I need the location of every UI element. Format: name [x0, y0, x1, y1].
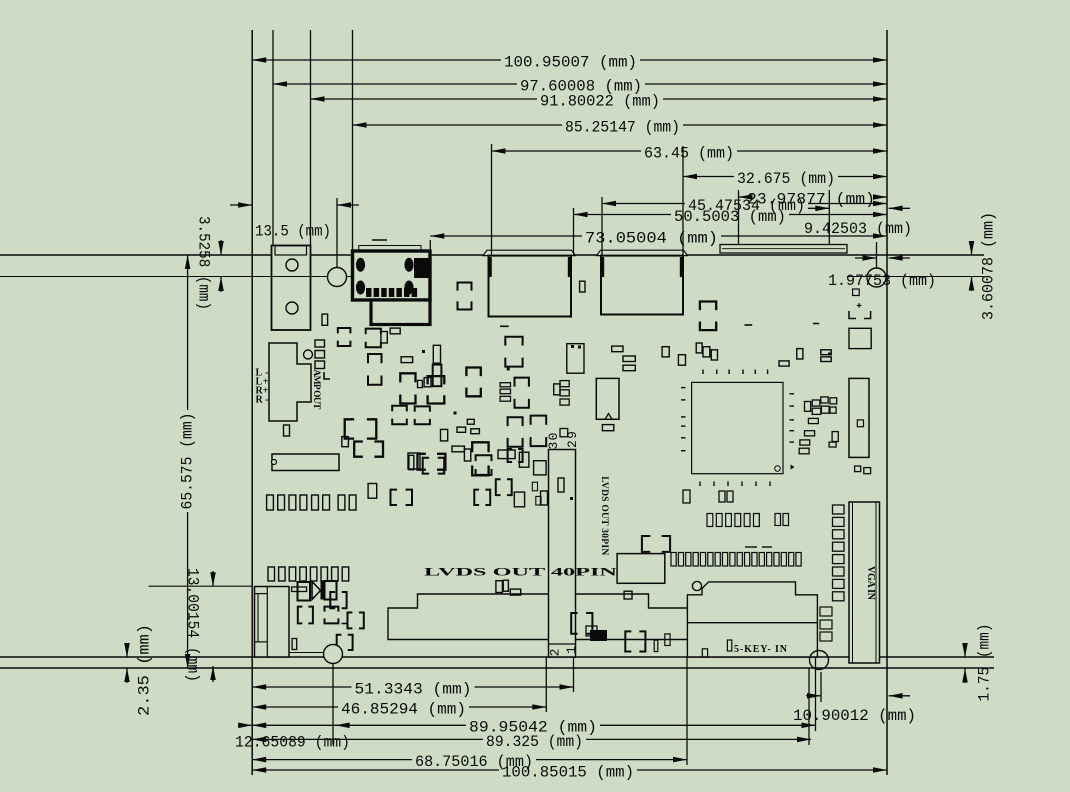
- svg-text:50.5003 (mm): 50.5003 (mm): [674, 208, 786, 226]
- svg-text:1.75 (mm): 1.75 (mm): [975, 624, 993, 702]
- svg-text:63.45 (mm): 63.45 (mm): [644, 144, 734, 162]
- svg-text:100.95007 (mm): 100.95007 (mm): [504, 53, 637, 71]
- svg-text:2: 2: [547, 649, 562, 657]
- svg-text:91.80022 (mm): 91.80022 (mm): [540, 92, 660, 110]
- svg-text:51.3343 (mm): 51.3343 (mm): [355, 680, 472, 698]
- svg-text:1.97753 (mm): 1.97753 (mm): [828, 272, 936, 290]
- svg-text:73.05004 (mm): 73.05004 (mm): [585, 229, 718, 247]
- svg-text:46.85294 (mm): 46.85294 (mm): [341, 700, 466, 718]
- svg-text:12.65089 (mm): 12.65089 (mm): [235, 733, 350, 751]
- svg-text:3.5258 (mm): 3.5258 (mm): [195, 216, 213, 310]
- svg-text:30: 30: [546, 433, 561, 450]
- svg-text:89.325 (mm): 89.325 (mm): [486, 733, 583, 751]
- svg-text:2.35 (mm): 2.35 (mm): [135, 624, 153, 716]
- svg-text:R-: R-: [256, 394, 269, 405]
- svg-text:65.575 (mm): 65.575 (mm): [178, 413, 196, 510]
- svg-text:9.42503 (mm): 9.42503 (mm): [804, 220, 912, 238]
- svg-text:13.00154 (mm): 13.00154 (mm): [184, 568, 202, 682]
- svg-text:13.5 (mm): 13.5 (mm): [255, 222, 331, 240]
- svg-text:LVDS OUT 40PIN: LVDS OUT 40PIN: [424, 565, 618, 579]
- svg-text:32.675 (mm): 32.675 (mm): [737, 170, 835, 188]
- svg-text:5-KEY- IN: 5-KEY- IN: [734, 644, 788, 655]
- svg-text:100.85015 (mm): 100.85015 (mm): [502, 763, 634, 781]
- svg-text:3.60078 (mm): 3.60078 (mm): [979, 212, 997, 320]
- svg-text:LVDS OUT 30PIN: LVDS OUT 30PIN: [599, 476, 609, 555]
- svg-text:AMP OUT: AMP OUT: [311, 369, 321, 410]
- svg-text:10.90012 (mm): 10.90012 (mm): [793, 707, 916, 725]
- svg-text:85.25147 (mm): 85.25147 (mm): [565, 118, 680, 136]
- svg-text:1: 1: [564, 646, 579, 654]
- svg-text:VGA IN: VGA IN: [865, 566, 876, 601]
